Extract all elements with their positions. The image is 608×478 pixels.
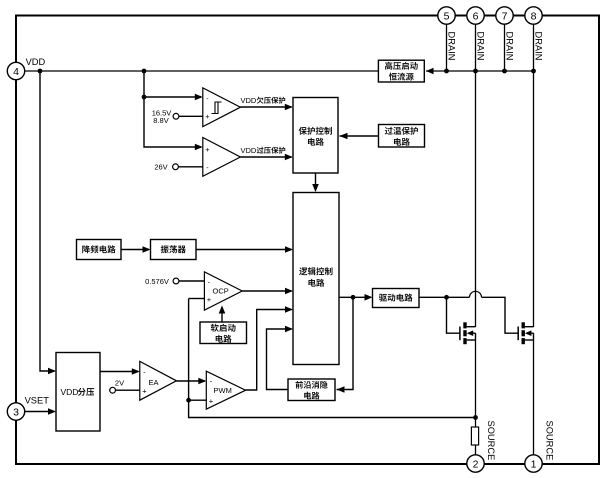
wire leading-edge-blanking output up to logic control — [267, 329, 292, 390]
svg-text:VDD: VDD — [61, 387, 79, 397]
block U_HV high-voltage startup constant current source — [378, 60, 424, 82]
block U4 over-temperature protection circuit — [379, 125, 425, 148]
junction current sense / M1 source node — [473, 415, 478, 420]
transistor M2 power NMOS (pins 7-8 drain, pin 1 source) — [518, 322, 533, 344]
junction drain bus / pin 8 — [531, 69, 536, 74]
svg-text:+: + — [207, 295, 212, 304]
junction drain bus / pin 6 — [473, 69, 478, 74]
svg-text:6: 6 — [473, 10, 479, 22]
wire pin 7 drain stub — [504, 24, 506, 71]
svg-text:3: 3 — [13, 406, 19, 418]
svg-text:VDD: VDD — [241, 146, 257, 155]
wire frequency-reduction to oscillator — [121, 249, 149, 251]
wire current sense line from OCP down to sense resistor node — [189, 299, 476, 418]
wire M1 source down to sense resistor — [475, 340, 477, 427]
junction driver output / M1 gate — [444, 295, 449, 300]
transistor M1 power NMOS (pins 5-6 drain, pin 2 source) — [460, 322, 476, 344]
wire over-temperature to protection control — [340, 135, 379, 137]
wire pin 8 drain line to M2 drain — [533, 24, 535, 327]
svg-text:+: + — [142, 386, 147, 395]
wire current sense to OCP + input — [189, 298, 205, 300]
junction driver line / blanking branch — [351, 295, 356, 300]
wire driver output to M1 gate branch — [419, 296, 470, 298]
svg-text:+: + — [205, 112, 210, 121]
svg-text:PWM: PWM — [214, 386, 232, 395]
wire VDD branch down to comparators — [144, 71, 201, 147]
svg-text:+: + — [209, 396, 214, 405]
resistor R_sense current sense — [471, 427, 478, 445]
wire VDD divider to EA - input — [100, 371, 138, 373]
wire VDD branch down to VDD divider block — [40, 71, 55, 371]
pin 4 VDD — [7, 62, 24, 79]
wire current sense to PWM + input — [189, 399, 207, 401]
wire OVP output to protection control — [240, 156, 291, 158]
svg-text:2: 2 — [473, 458, 479, 470]
wire 26V reference to OVP - input — [178, 166, 202, 168]
wire branch down to leading edge blanking — [337, 297, 354, 389]
wire M2 source down to pin 1 — [533, 340, 535, 455]
svg-text:0.576V: 0.576V — [145, 277, 169, 286]
comparator U11 PWM — [206, 371, 245, 409]
pin 6 DRAIN — [467, 7, 484, 24]
wire hop over pin-6 drain line — [470, 291, 482, 297]
pin 2 SOURCE — [467, 455, 484, 472]
svg-text:DRAIN: DRAIN — [446, 32, 456, 61]
svg-text:7: 7 — [502, 10, 508, 22]
svg-text:SOURCE: SOURCE — [486, 421, 496, 461]
wire logic control output to driver — [339, 296, 371, 298]
svg-text:DRAIN: DRAIN — [504, 32, 514, 61]
wire OCP output to logic control — [242, 290, 291, 292]
comparator U1 VDD under-voltage (with hysteresis) — [203, 88, 241, 127]
wire 16.5V reference to UVLO + input — [179, 115, 203, 117]
wire drain bus to HV startup block — [426, 70, 534, 72]
block U12 leading edge blanking circuit — [288, 379, 335, 401]
junction comparator branch to UVLO — [142, 95, 147, 100]
junction VDD rail / comparator sense branch — [142, 69, 147, 74]
block U7 oscillator — [151, 240, 197, 260]
comparator U2 VDD over-voltage — [203, 138, 241, 177]
svg-text:DRAIN: DRAIN — [475, 32, 485, 61]
junction current sense / PWM branch — [186, 398, 191, 403]
block U6 frequency-reduction circuit — [77, 240, 122, 260]
svg-text:+: + — [205, 145, 210, 154]
block U5 logic control circuit — [293, 193, 339, 365]
wire pin 6 drain line to M1 drain — [475, 24, 477, 327]
wire soft-start to OCP — [221, 307, 223, 322]
pin 3 VSET — [7, 403, 24, 420]
junction drain bus / pin 7 — [502, 69, 507, 74]
svg-text:VSET: VSET — [25, 396, 50, 406]
svg-text:SOURCE: SOURCE — [544, 421, 554, 461]
svg-text:EA: EA — [149, 378, 159, 387]
svg-text:26V: 26V — [154, 163, 167, 172]
block U9 soft-start circuit — [200, 322, 247, 344]
wire pin 5 drain stub — [446, 24, 448, 71]
svg-text:8: 8 — [531, 10, 537, 22]
block U10 VDD divider — [56, 353, 100, 432]
svg-text:2V: 2V — [115, 378, 124, 387]
wire to UVLO comparator inverting input — [144, 96, 201, 98]
pin 1 SOURCE — [525, 455, 542, 472]
junction VDD rail / VDD divider branch — [38, 69, 43, 74]
comparator U8 OCP over-current — [204, 272, 242, 310]
svg-text:4: 4 — [13, 66, 19, 78]
pin 7 DRAIN — [496, 7, 513, 24]
svg-text:8.8V: 8.8V — [153, 116, 168, 125]
wire sense resistor to pin 2 — [475, 445, 477, 455]
wire 2V reference to EA + input — [116, 389, 140, 391]
block U13 gate driver circuit — [373, 289, 420, 308]
svg-text:VDD: VDD — [26, 57, 46, 67]
wire 0.576V reference to OCP - input — [179, 280, 205, 282]
wire oscillator to logic control — [196, 249, 292, 251]
wire M1 gate lead — [447, 297, 460, 333]
junction drain bus / pin 5 — [444, 69, 449, 74]
wire UVLO output to protection control — [240, 106, 291, 108]
wire driver output to M2 gate — [482, 297, 518, 333]
wire PWM output up to logic control — [246, 310, 292, 391]
wire EA output to PWM - input — [176, 380, 204, 382]
svg-text:1: 1 — [531, 458, 537, 470]
block U3 protection control circuit — [293, 98, 338, 174]
pin 5 DRAIN — [438, 7, 455, 24]
svg-text:DRAIN: DRAIN — [533, 32, 543, 61]
wire pin 3 to VDD divider — [25, 411, 55, 413]
svg-text:5: 5 — [444, 10, 450, 22]
wire VDD rail from pin 4 to HV startup block — [16, 70, 378, 72]
op-amp EA error amplifier — [140, 361, 177, 400]
pin 8 DRAIN — [525, 7, 542, 24]
svg-text:OCP: OCP — [213, 287, 229, 296]
wire protection control to logic control — [315, 173, 317, 191]
svg-text:VDD: VDD — [241, 96, 257, 105]
